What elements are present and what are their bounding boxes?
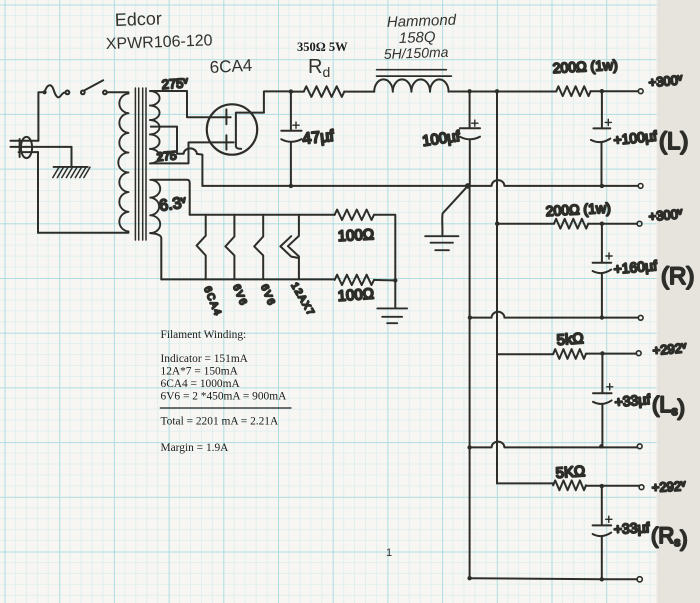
wire cathode riser to B+ rail: [264, 91, 291, 112]
svg-text:6CA4: 6CA4: [209, 56, 252, 77]
wire bottom return rail: [470, 578, 638, 579]
heater 12AX7 double chevron: [280, 215, 299, 280]
resistor 5K ohm (Rs): [553, 480, 586, 490]
svg-text:+292v: +292v: [652, 340, 687, 358]
wire B+ distribution bus vertical: [496, 91, 498, 483]
wire ground rail with hop: [202, 180, 638, 186]
node dot 33uF Rs bottom: [600, 577, 604, 581]
wire heater rail top: [190, 214, 335, 216]
svg-text:Total = 2201 mA = 2.21A: Total = 2201 mA = 2.21A: [161, 416, 280, 428]
node dot 160uF top: [600, 222, 604, 226]
svg-text:+292v: +292v: [651, 478, 686, 495]
choke L1 winding: [374, 79, 448, 91]
heater 6V6 #1 chevron: [225, 215, 234, 280]
wire B+ rail to Rd: [291, 91, 304, 93]
capacitor C1 47uF: [281, 92, 301, 186]
svg-text:+300v: +300v: [648, 72, 683, 90]
switch contact circle left: [66, 91, 70, 95]
wire HV bottom lead to plate 2: [151, 142, 234, 163]
capacitor C5 33uF (Ls): [593, 353, 613, 446]
resistor 100 ohm lower: [335, 275, 374, 285]
terminal (L) return: [638, 184, 643, 189]
wire earth drop: [71, 147, 73, 167]
node dot 33uF Rs top: [600, 484, 604, 488]
svg-text:+33µf: +33µf: [614, 391, 651, 410]
node dot R feed from bus: [495, 222, 499, 226]
terminal (Rs) return: [637, 577, 642, 582]
svg-text:Filament Winding:: Filament Winding:: [161, 329, 247, 341]
transformer T1 primary winding: [118, 94, 128, 232]
svg-text:Edcor: Edcor: [114, 8, 162, 30]
wire ground bus vertical: [469, 186, 471, 578]
tube cathode: [236, 113, 264, 149]
heater 6CA4 chevron: [197, 215, 206, 280]
wire to +292 terminal (Ls): [586, 353, 636, 355]
switch S1 arm (open): [85, 80, 104, 90]
svg-text:Margin = 1.9A: Margin = 1.9A: [161, 442, 230, 454]
resistor 5k ohm (Ls): [553, 349, 586, 359]
node dot ground junction: [465, 183, 471, 189]
wire heater rail bottom: [161, 278, 334, 280]
resistor Rd 350 ohm zigzag: [304, 86, 345, 97]
wire switch to transformer primary: [107, 91, 129, 93]
wire heater rail bottom right: [374, 279, 395, 282]
node junction at fuse: [43, 90, 47, 94]
node dot ground bus top / 100uF: [467, 89, 471, 93]
heater 6V6 #2 chevron: [254, 215, 263, 280]
filament table rule: [160, 407, 292, 409]
wire neutral lead down from plug: [37, 152, 39, 233]
wire Ls return rail with hop: [470, 442, 638, 448]
tube plate 1 bar: [225, 109, 227, 124]
wire to heater ground symbol: [394, 280, 396, 308]
wire R feed rail: [497, 223, 554, 225]
chassis ground symbol heater: [377, 308, 407, 323]
terminal +292 (Rs): [639, 485, 644, 490]
capacitor C3 100uF (L): [591, 91, 612, 186]
wire 6.3V top lead: [152, 180, 190, 215]
svg-text:6V6 = 2 *450mA = 900mA: 6V6 = 2 *450mA = 900mA: [161, 391, 288, 403]
tube plate 2 bar: [225, 135, 227, 149]
wire HV top lead to plate 1: [151, 91, 231, 117]
resistor 100 ohm upper: [335, 210, 374, 220]
svg-text:+33µf: +33µf: [613, 519, 650, 537]
svg-text:(L): (L): [659, 128, 688, 155]
svg-text:100Ω: 100Ω: [337, 286, 374, 305]
capacitor C4 160uF (R): [593, 224, 613, 318]
svg-text:5kΩ: 5kΩ: [556, 330, 584, 349]
rectifier tube 6CA4 U1 envelope: [207, 104, 257, 154]
filament winding text block: [161, 329, 288, 454]
wire diagonal to chassis ground: [442, 186, 468, 236]
svg-text:275: 275: [156, 148, 177, 164]
node dot bottom rail on ground bus: [467, 576, 471, 580]
earth ground symbol: [53, 167, 90, 178]
switch contact circle right: [103, 91, 107, 95]
switch contact circle middle: [81, 91, 85, 95]
wire 6.3V bottom lead: [150, 233, 161, 279]
wire R return rail with hop: [470, 312, 638, 318]
resistor 200 ohm (R): [554, 219, 588, 229]
svg-text:+300v: +300v: [648, 206, 683, 224]
wire hot lead up from plug: [38, 92, 44, 140]
transformer core laminations: [135, 88, 146, 240]
capacitor C2 100uF: [460, 91, 480, 186]
node dot heater ground: [393, 278, 397, 282]
node dot 47uF top: [289, 89, 293, 93]
chassis ground symbol mid: [425, 236, 458, 250]
wire bottom return to primary: [38, 232, 129, 234]
svg-text:(R): (R): [661, 263, 694, 290]
AC plug P1: [11, 137, 72, 158]
paper edge shading: [656, 0, 661, 603]
node dot 47uF bottom: [289, 184, 293, 188]
wire choke to 200 ohm (L): [449, 91, 557, 93]
svg-text:Hammond: Hammond: [387, 12, 457, 31]
node dot 100uF L bottom: [600, 184, 604, 188]
svg-text:(Rs): (Rs): [651, 523, 688, 551]
wire Ls feed rail: [497, 353, 553, 355]
node dot 160uF bottom: [600, 315, 604, 319]
terminal +292 (Ls): [636, 351, 641, 356]
svg-text:47µf: 47µf: [302, 128, 336, 148]
svg-text:100Ω: 100Ω: [337, 226, 374, 245]
node dot 33uF Ls bottom: [599, 444, 603, 448]
resistor 200 ohm (L) zigzag: [556, 86, 590, 96]
wire to +292 terminal (Rs): [586, 485, 639, 487]
svg-text:12A*7 = 150mA: 12A*7 = 150mA: [161, 366, 239, 378]
terminal +300 (L): [638, 89, 643, 94]
transformer 6.3V winding: [150, 180, 160, 233]
right plain margin of pad: [659, 0, 700, 603]
svg-text:200Ω (1w): 200Ω (1w): [552, 57, 618, 76]
svg-text:200Ω (1w): 200Ω (1w): [545, 200, 611, 219]
fuse F1 squiggle: [45, 85, 66, 97]
node dot B+ bus top: [495, 89, 499, 93]
choke core lines: [377, 70, 452, 76]
wire Rd to choke: [344, 91, 374, 93]
wire to +300 terminal (R): [588, 223, 637, 225]
node dot 100uF L top: [600, 89, 604, 93]
wire to +300 terminal (L): [591, 90, 639, 92]
svg-text:350Ω 5W: 350Ω 5W: [297, 40, 348, 54]
svg-text:Indicator = 151mA: Indicator = 151mA: [161, 353, 249, 365]
terminal (Ls) return: [637, 444, 642, 449]
terminal +300 (R): [637, 221, 642, 226]
svg-text:6CA4 = 1000mA: 6CA4 = 1000mA: [161, 378, 241, 390]
node dot R return on ground bus: [468, 315, 472, 319]
terminal (R) return: [638, 315, 643, 320]
wire heater rail top right + drop: [374, 215, 395, 281]
node dot 33uF Ls top: [600, 351, 604, 355]
transformer HV secondary winding: [150, 91, 160, 163]
svg-text:5KΩ: 5KΩ: [555, 463, 586, 482]
wire center tap with hop to ground rail: [151, 127, 203, 186]
wire Rs feed rail: [497, 483, 553, 485]
svg-text:5H/150ma: 5H/150ma: [384, 44, 449, 62]
svg-text:1: 1: [386, 547, 392, 559]
node dot Ls return on ground bus: [467, 445, 471, 449]
capacitor C6 33uF (Rs): [593, 486, 612, 579]
svg-text:(Ls): (Ls): [652, 392, 685, 420]
